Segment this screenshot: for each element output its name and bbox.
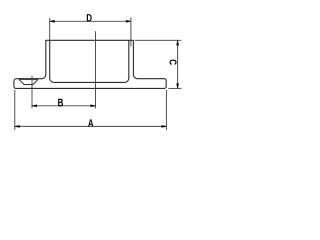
flange outer profile bbox=[14, 40, 166, 88]
extension line A left bbox=[14, 90, 16, 130]
arrowhead D left bbox=[50, 20, 55, 22]
label C (rotated) bbox=[170, 60, 177, 65]
bore inner walls and floor bbox=[50, 40, 129, 82]
extension line D left bbox=[49, 18, 51, 42]
arrowhead C bottom bbox=[177, 84, 179, 89]
extension line C top bbox=[135, 39, 181, 41]
extension line A right bbox=[165, 90, 167, 130]
gasket groove trapezoid bbox=[19, 79, 38, 84]
arrowhead B left bbox=[32, 105, 37, 107]
extension line B right (through hub) bbox=[95, 31, 97, 108]
dimension line C bbox=[177, 41, 179, 88]
extension line B left (through groove) bbox=[31, 76, 33, 109]
label B bbox=[58, 99, 63, 106]
dimension line A bbox=[15, 125, 167, 127]
arrowhead B right bbox=[91, 105, 96, 107]
label D bbox=[87, 14, 92, 21]
label A bbox=[88, 119, 93, 126]
arrowhead A right bbox=[162, 125, 167, 127]
arrowhead A left bbox=[15, 125, 20, 127]
extension line C bottom bbox=[168, 87, 181, 89]
dimension line B bbox=[32, 105, 96, 107]
dimension line D bbox=[50, 20, 131, 22]
gasket groove top edge bbox=[19, 78, 38, 80]
arrowhead C top bbox=[177, 40, 179, 45]
extension line D right bbox=[130, 18, 132, 47]
arrowhead D right bbox=[126, 20, 131, 22]
